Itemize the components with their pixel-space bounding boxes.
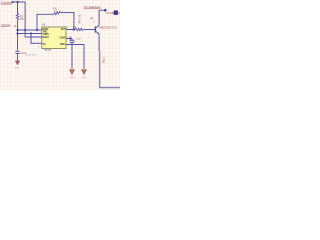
svg-text:1: 1 <box>2 27 3 29</box>
svg-text:GND: GND <box>82 77 87 79</box>
svg-text:CTRL: CTRL <box>102 57 105 64</box>
svg-text:8: 8 <box>38 47 39 49</box>
svg-text:GND: GND <box>60 43 65 46</box>
svg-text:GND: GND <box>70 77 75 79</box>
svg-text:0.1uF: 0.1uF <box>76 39 81 41</box>
svg-text:0.1uF 25V: 0.1uF 25V <box>25 55 36 57</box>
svg-text:OUT: OUT <box>61 28 66 31</box>
svg-text:GND: GND <box>15 67 20 69</box>
svg-text:MMBT2222A LT1G: MMBT2222A LT1G <box>99 27 118 30</box>
svg-text:DADJ: DADJ <box>43 36 50 39</box>
svg-text:MIC1557: MIC1557 <box>44 50 52 52</box>
svg-text:3: 3 <box>93 21 94 23</box>
svg-text:5V Switched: 5V Switched <box>84 5 101 9</box>
svg-text:VS: VS <box>43 43 46 46</box>
svg-text:CONT: CONT <box>59 36 66 39</box>
svg-text:IO Switched: IO Switched <box>1 0 12 4</box>
svg-text:5: 5 <box>67 27 68 29</box>
svg-text:5V SW: 5V SW <box>78 15 81 25</box>
